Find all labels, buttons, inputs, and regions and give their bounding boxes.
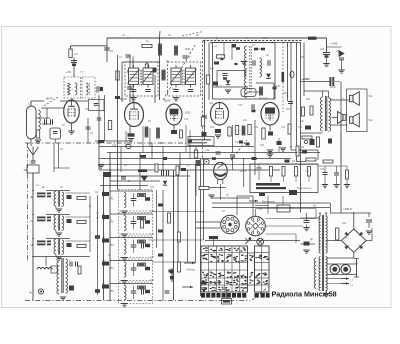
svg-text:С37: С37 — [150, 257, 155, 259]
svg-text:С17: С17 — [218, 86, 223, 88]
svg-text:С39: С39 — [150, 280, 155, 282]
svg-text:R16: R16 — [254, 127, 259, 129]
svg-text:С10: С10 — [112, 145, 117, 147]
svg-text:6К4П: 6К4П — [164, 99, 171, 103]
svg-text:Выпрямитель: Выпрямитель — [297, 188, 312, 190]
svg-text:АМ: АМ — [252, 44, 255, 47]
svg-text:2×0,5: 2×0,5 — [240, 170, 247, 173]
svg-text:0,1: 0,1 — [110, 49, 114, 53]
svg-text:R12: R12 — [209, 103, 214, 105]
svg-text:+ 245: + 245 — [330, 42, 338, 46]
svg-text:6П14П: 6П14П — [259, 97, 268, 101]
svg-text:2А: 2А — [330, 98, 333, 101]
svg-text:С31: С31 — [150, 187, 155, 189]
svg-text:Включено: Включено — [262, 200, 275, 204]
svg-text:~Сеть: ~Сеть — [186, 268, 196, 272]
svg-text:1Д: 1Д — [355, 263, 358, 265]
svg-text:470: 470 — [276, 85, 281, 88]
svg-text:6К4П: 6К4П — [46, 97, 53, 101]
svg-text:С12: С12 — [172, 89, 177, 91]
svg-text:С44: С44 — [305, 171, 310, 173]
svg-text:Гр1: Гр1 — [369, 95, 374, 98]
svg-text:Детектор: Детектор — [216, 38, 226, 40]
svg-text:R25: R25 — [300, 57, 305, 59]
svg-text:1Д: 1Д — [95, 192, 98, 194]
svg-text:1М: 1М — [292, 161, 295, 163]
svg-text:С46: С46 — [320, 169, 325, 171]
svg-text:ПЧ: ПЧ — [60, 187, 64, 189]
svg-text:ЧМ: ЧМ — [214, 46, 217, 48]
svg-text:С22: С22 — [298, 127, 303, 129]
svg-text:R19: R19 — [260, 145, 265, 147]
svg-text:С48: С48 — [320, 49, 325, 51]
svg-text:С24: С24 — [205, 150, 210, 152]
svg-text:R15: R15 — [160, 143, 165, 145]
svg-text:АПЧ: АПЧ — [185, 48, 190, 51]
svg-text:6А: 6А — [132, 56, 135, 59]
svg-text:R22: R22 — [283, 93, 288, 95]
svg-text:С33: С33 — [150, 211, 155, 213]
svg-text:+225В: +225В — [302, 79, 309, 81]
svg-text:R40: R40 — [342, 223, 347, 225]
svg-text:R26: R26 — [306, 99, 311, 101]
svg-text:+250 В: +250 В — [343, 207, 352, 211]
svg-text:2А-В: 2А-В — [330, 86, 336, 89]
svg-text:1,0: 1,0 — [74, 53, 78, 56]
svg-text:С35: С35 — [150, 234, 155, 236]
svg-text:ЗВ: ЗВ — [24, 169, 27, 172]
svg-text:Гр2: Гр2 — [369, 119, 374, 122]
svg-text:6И1П: 6И1П — [120, 97, 127, 101]
svg-text:Г Г: Г Г — [80, 70, 84, 74]
svg-text:6Х2П: 6Х2П — [262, 38, 268, 40]
svg-text:+0Я: +0Я — [66, 71, 71, 74]
svg-text:С21: С21 — [281, 127, 286, 129]
svg-text:R30: R30 — [300, 147, 305, 149]
svg-text:R17: R17 — [186, 165, 191, 167]
svg-text:R23: R23 — [286, 109, 291, 111]
svg-text:5813: 5813 — [185, 112, 191, 115]
svg-text:С18: С18 — [238, 105, 243, 107]
svg-text:С40: С40 — [244, 92, 249, 95]
svg-text:Радиола Минск-58: Радиола Минск-58 — [272, 289, 337, 298]
svg-text:0,01: 0,01 — [235, 142, 240, 144]
svg-text:С14: С14 — [184, 119, 189, 121]
svg-text:R13: R13 — [210, 127, 215, 129]
svg-text:АВС: АВС — [344, 237, 349, 240]
svg-text:СЕ: СЕ — [60, 149, 64, 151]
